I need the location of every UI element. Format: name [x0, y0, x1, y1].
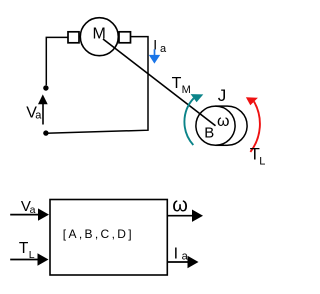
Va source arrow [42, 104, 44, 125]
torque arrow TM (teal arc) [184, 98, 193, 145]
svg-text:ω: ω [172, 195, 188, 217]
shaft wire (motor to load) [103, 39, 216, 126]
svg-text:J: J [218, 86, 227, 105]
brush terminal left [68, 32, 79, 43]
input wire TL [10, 259, 38, 261]
svg-text:ω: ω [217, 113, 230, 130]
svg-text:I: I [174, 246, 178, 263]
cylinder top edge [216, 105, 228, 107]
svg-text:B: B [204, 125, 214, 142]
input wire Va [10, 214, 38, 216]
state-space block [A,B,C,D] [50, 200, 167, 276]
svg-text:T: T [19, 240, 29, 257]
wire: left lead from motor brush to left corner and down [46, 37, 68, 85]
node B (bottom terminal dot) [43, 130, 48, 135]
svg-text:[A,B,C,D]: [A,B,C,D] [63, 227, 134, 241]
node A (top terminal dot) [43, 85, 48, 90]
brush terminal right [119, 32, 131, 43]
cylinder bottom edge [216, 144, 228, 146]
svg-text:a: a [35, 110, 42, 122]
svg-text:L: L [259, 155, 265, 167]
output wire omega [167, 215, 192, 217]
svg-text:T: T [172, 75, 182, 92]
svg-text:a: a [160, 43, 167, 55]
svg-text:M: M [182, 84, 191, 96]
svg-text:M: M [93, 25, 106, 42]
current arrow Ia (blue) [154, 49, 156, 55]
load cylinder front circle [196, 106, 235, 145]
wire: bottom return, right vertical, to right brush [46, 37, 148, 134]
torque arrow TL (red arc) [250, 102, 260, 152]
motor M circle [80, 18, 118, 56]
output wire Ia [167, 261, 188, 263]
load cylinder rear arc [228, 106, 248, 145]
